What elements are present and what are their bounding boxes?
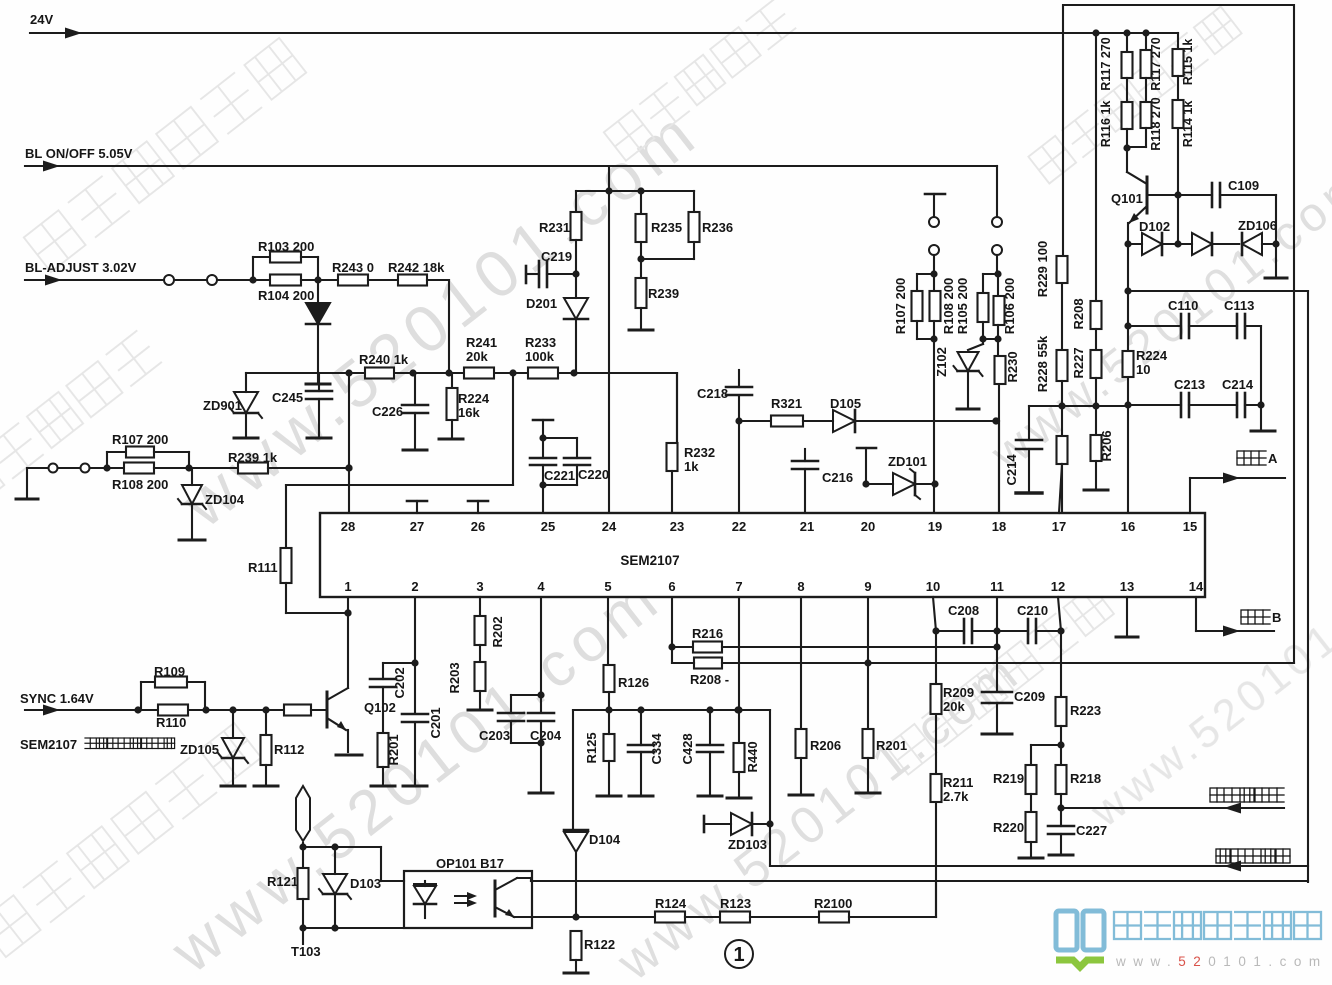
wire pin5col to D104 branch [572, 710, 574, 830]
wire contact to parallel pair [933, 255, 935, 274]
svg-text:22: 22 [732, 519, 746, 534]
wire collector long y881 [517, 877, 531, 879]
wire y710 row [573, 709, 770, 711]
svg-text:20k: 20k [943, 699, 965, 714]
svg-text:26: 26 [471, 519, 485, 534]
svg-text:R126: R126 [618, 675, 649, 690]
wire to right edge y291 [1128, 290, 1308, 292]
svg-text:C203: C203 [479, 728, 510, 743]
svg-text:C219: C219 [541, 249, 572, 264]
wire down to ZD103 node [769, 710, 771, 866]
wire y866 long [770, 865, 1308, 867]
label drive A [1237, 451, 1278, 466]
svg-text:R108 200: R108 200 [112, 477, 168, 492]
svg-text:R208: R208 [1071, 298, 1086, 329]
connector pin T103 symbol [296, 786, 310, 841]
wire emitter to node [514, 916, 576, 918]
wire pin19 column [933, 339, 935, 513]
ground [336, 754, 362, 757]
svg-text:14: 14 [1189, 579, 1204, 594]
svg-text:C209: C209 [1014, 689, 1045, 704]
svg-text:D102: D102 [1139, 219, 1170, 234]
label from-backlight (lower) [1216, 849, 1290, 863]
svg-text:R218: R218 [1070, 771, 1101, 786]
svg-text:23: 23 [670, 519, 684, 534]
svg-text:R104 200: R104 200 [258, 288, 314, 303]
svg-text:2.7k: 2.7k [943, 789, 969, 804]
svg-text:28: 28 [341, 519, 355, 534]
svg-text:20: 20 [861, 519, 875, 534]
svg-text:C220: C220 [578, 467, 609, 482]
wire pin17 top column [1059, 464, 1062, 513]
wire y405 row [1029, 405, 1128, 407]
wire box outline top [1063, 5, 1294, 663]
ground [234, 437, 258, 440]
svg-text:R209: R209 [943, 685, 974, 700]
svg-text:T103: T103 [291, 944, 321, 959]
svg-text:ZD105: ZD105 [180, 742, 219, 757]
wire 24V bus [30, 32, 1178, 34]
svg-text:C214: C214 [1004, 454, 1019, 486]
svg-text:R228 55k: R228 55k [1035, 335, 1050, 392]
svg-text:16: 16 [1121, 519, 1135, 534]
wire pin16 top column [1127, 244, 1129, 513]
svg-text:D105: D105 [830, 396, 861, 411]
ground [629, 329, 653, 332]
ground [307, 437, 331, 440]
wire R116/R118 bracket [1127, 146, 1146, 148]
svg-text:1: 1 [344, 579, 351, 594]
svg-text:25: 25 [541, 519, 555, 534]
svg-text:1: 1 [733, 944, 744, 966]
svg-text:R105 200: R105 200 [955, 278, 970, 334]
svg-text:R231: R231 [539, 220, 570, 235]
svg-text:R236: R236 [702, 220, 733, 235]
svg-text:ZD101: ZD101 [888, 454, 927, 469]
svg-text:R243 0: R243 0 [332, 260, 374, 275]
resistor above pin17 [1061, 406, 1063, 436]
wire rail to pin23 corner [676, 373, 678, 443]
ground [1251, 430, 1275, 433]
diode below R104 junction [317, 280, 319, 303]
svg-text:R224: R224 [458, 391, 490, 406]
svg-text:C428: C428 [680, 733, 695, 764]
svg-text:C218: C218 [697, 386, 728, 401]
svg-text:R117 270: R117 270 [1099, 37, 1113, 91]
wire y647 to pin11 [722, 646, 997, 648]
svg-text:BL ON/OFF 5.05V: BL ON/OFF 5.05V [25, 146, 133, 161]
ground [564, 972, 588, 975]
wire T103 node [302, 843, 304, 868]
svg-text:Q101: Q101 [1111, 191, 1143, 206]
svg-text:R206: R206 [810, 738, 841, 753]
wire right edge down [1307, 291, 1309, 882]
svg-text:R108 200: R108 200 [941, 278, 956, 334]
resistor Q102 base [284, 705, 311, 716]
ground [529, 792, 553, 795]
stub above pin20 [857, 447, 876, 450]
svg-text:18: 18 [992, 519, 1006, 534]
wire pin28 column [348, 373, 350, 513]
svg-text:R107 200: R107 200 [112, 432, 168, 447]
svg-text:100k: 100k [525, 349, 555, 364]
LED inside OP101 [424, 881, 426, 886]
svg-text:11: 11 [990, 579, 1004, 594]
svg-text:24V: 24V [30, 12, 53, 27]
wire BL ON/OFF bus [25, 165, 997, 167]
svg-text:SYNC 1.64V: SYNC 1.64V [20, 691, 94, 706]
svg-text:C214: C214 [1222, 377, 1254, 392]
svg-text:7: 7 [735, 579, 742, 594]
wire pin7 column [738, 597, 740, 710]
ground [179, 539, 205, 542]
wire pin8 column [800, 597, 802, 729]
ground [306, 383, 330, 386]
label from-backlight (upper) [1210, 788, 1284, 802]
ground [468, 709, 492, 712]
ground [727, 797, 751, 800]
svg-text:C109: C109 [1228, 178, 1259, 193]
ground [957, 408, 979, 411]
wire BL-ADJUST to R104 [175, 279, 206, 281]
svg-text:10: 10 [1136, 362, 1150, 377]
svg-text:R107 200: R107 200 [893, 278, 908, 334]
svg-text:R229 100: R229 100 [1035, 241, 1050, 297]
svg-text:1k: 1k [684, 459, 699, 474]
wire pin4 column [540, 597, 542, 713]
label drive B [1241, 610, 1281, 625]
svg-text:15: 15 [1183, 519, 1197, 534]
svg-text:R122: R122 [584, 937, 615, 952]
svg-text:3: 3 [476, 579, 483, 594]
svg-text:R116 1k: R116 1k [1099, 101, 1113, 148]
svg-text:C216: C216 [822, 470, 853, 485]
svg-text:20k: 20k [466, 349, 488, 364]
svg-text:19: 19 [928, 519, 942, 534]
svg-text:R230: R230 [1005, 351, 1020, 382]
svg-text:C110: C110 [1168, 298, 1198, 313]
wire pin6 column [671, 597, 673, 663]
svg-text:R125: R125 [584, 732, 599, 763]
svg-text:C204: C204 [530, 728, 562, 743]
svg-text:R242 18k: R242 18k [388, 260, 445, 275]
op-amp U1 SEM2107 IC body [320, 513, 1205, 597]
ground [698, 795, 722, 798]
terminal circles input [49, 464, 58, 473]
ground [403, 785, 427, 788]
svg-text:C210: C210 [1017, 603, 1048, 618]
svg-text:SEM2107: SEM2107 [20, 737, 77, 752]
wire to pin25 [542, 485, 544, 513]
wire pin28 feed path [512, 373, 514, 485]
svg-text:R201: R201 [876, 738, 907, 753]
svg-text:SEM2107: SEM2107 [620, 553, 679, 568]
ground [1016, 491, 1042, 494]
circled number 1 [725, 940, 753, 968]
ground [439, 438, 463, 441]
svg-text:R321: R321 [771, 396, 802, 411]
ground [1265, 277, 1287, 280]
svg-text:C208: C208 [948, 603, 979, 618]
svg-text:C226: C226 [372, 404, 403, 419]
ground [597, 795, 621, 798]
svg-text:R240 1k: R240 1k [359, 352, 409, 367]
svg-text:R202: R202 [490, 616, 505, 647]
ground [221, 785, 245, 788]
wire pin13 ground stub [1126, 597, 1128, 635]
svg-text:C213: C213 [1174, 377, 1205, 392]
svg-text:C202: C202 [392, 667, 407, 698]
logo url [1115, 954, 1328, 969]
diode next to D102 [1192, 233, 1212, 255]
svg-text:R211: R211 [943, 775, 973, 790]
label SEM2107 pins note [20, 737, 175, 752]
wire from-backlight upper [1061, 807, 1284, 809]
svg-text:21: 21 [800, 519, 814, 534]
svg-text:ZD106: ZD106 [1238, 218, 1277, 233]
svg-text:ZD901: ZD901 [203, 398, 242, 413]
ground [1019, 857, 1043, 860]
svg-text:www.520101.com: www.520101.com [1115, 954, 1328, 969]
svg-text:OP101 B17: OP101 B17 [436, 856, 504, 871]
ground [982, 733, 1012, 736]
svg-text:16k: 16k [458, 405, 480, 420]
terminal circles pin19 branch [929, 217, 939, 227]
svg-text:B: B [1272, 610, 1281, 625]
svg-text:R241: R241 [466, 335, 497, 350]
svg-text:R203: R203 [447, 662, 462, 693]
wire pin15 drive A [1189, 478, 1191, 513]
svg-text:12: 12 [1051, 579, 1065, 594]
svg-text:D103: D103 [350, 876, 381, 891]
ground [371, 785, 395, 788]
ground [789, 794, 813, 797]
svg-text:C334: C334 [649, 733, 664, 765]
svg-text:R110: R110 [156, 715, 186, 730]
wire T103 stem [302, 928, 304, 944]
wire y663 long [672, 662, 694, 664]
wire pin1 column to Q102 [347, 597, 349, 688]
svg-text:Q102: Q102 [364, 700, 396, 715]
wire stub from BL bus to R231/R235 [608, 166, 610, 513]
svg-text:BL-ADJUST 3.02V: BL-ADJUST 3.02V [25, 260, 137, 275]
ground [1084, 489, 1108, 492]
svg-text:R121: R121 [267, 874, 298, 889]
svg-text:R235: R235 [651, 220, 682, 235]
ground terminal left [26, 468, 28, 497]
svg-text:R223: R223 [1070, 703, 1101, 718]
wire pin12 column [1058, 597, 1061, 631]
stub bar above pin27 [416, 501, 418, 513]
svg-text:24: 24 [602, 519, 617, 534]
stub bar above contact [925, 193, 945, 196]
wire R239 to pin28 column [268, 467, 349, 469]
phototransistor inside OP101 [494, 881, 497, 916]
svg-text:R123: R123 [720, 896, 751, 911]
svg-text:D201: D201 [526, 296, 557, 311]
svg-text:R232: R232 [684, 445, 715, 460]
svg-text:9: 9 [864, 579, 871, 594]
logo book icon [1056, 911, 1104, 967]
wire R242 to R241 node [427, 279, 449, 281]
ground [629, 795, 653, 798]
logo site name [1114, 912, 1321, 939]
svg-text:4: 4 [537, 579, 545, 594]
svg-text:R227: R227 [1071, 347, 1086, 378]
terminal circles pin18 branch [992, 217, 1002, 227]
svg-text:C227: C227 [1076, 823, 1107, 838]
svg-text:8: 8 [797, 579, 804, 594]
stub bar above pin26 [477, 501, 479, 513]
ground [1049, 854, 1073, 857]
wire rail y373 [246, 372, 677, 374]
svg-text:C113: C113 [1224, 298, 1254, 313]
ground [254, 785, 278, 788]
svg-text:5: 5 [604, 579, 611, 594]
svg-text:ZD103: ZD103 [728, 837, 767, 852]
svg-text:10: 10 [926, 579, 940, 594]
svg-text:R124: R124 [655, 896, 687, 911]
wire input [27, 467, 48, 469]
svg-text:R219: R219 [993, 771, 1024, 786]
svg-text:R224: R224 [1136, 348, 1168, 363]
svg-text:2: 2 [411, 579, 418, 594]
wire pin14 drive B [1195, 597, 1197, 631]
svg-text:R2100: R2100 [814, 896, 852, 911]
ground [403, 449, 427, 452]
svg-text:R111: R111 [248, 560, 278, 575]
svg-text:D104: D104 [589, 832, 621, 847]
wire bottom LED row [303, 927, 404, 929]
svg-text:R239: R239 [648, 286, 679, 301]
svg-text:R220: R220 [993, 820, 1024, 835]
svg-text:6: 6 [668, 579, 675, 594]
terminal circles BL-ADJUST [164, 275, 174, 285]
wire BL-ADJUST [25, 279, 164, 281]
svg-text:R216: R216 [692, 626, 723, 641]
svg-text:17: 17 [1052, 519, 1066, 534]
svg-text:A: A [1268, 451, 1278, 466]
wire pin2 column [414, 597, 416, 714]
svg-text:R233: R233 [525, 335, 556, 350]
wire BL bus corner to contacts [996, 166, 998, 217]
svg-text:C245: C245 [272, 390, 303, 405]
wire pin11 column [996, 597, 998, 692]
svg-text:C221: C221 [544, 468, 575, 483]
svg-text:13: 13 [1120, 579, 1134, 594]
svg-text:R208 -: R208 - [690, 672, 729, 687]
svg-text:ZD104: ZD104 [205, 492, 245, 507]
svg-text:Z102: Z102 [934, 347, 949, 377]
ground [856, 792, 880, 795]
wire R124 row [576, 916, 655, 918]
wire pin9 column [867, 597, 869, 729]
svg-text:R440: R440 [745, 741, 760, 772]
svg-text:C201: C201 [428, 707, 443, 738]
light arrows [455, 895, 472, 897]
svg-text:R112: R112 [274, 742, 304, 757]
stub bar above C221 [533, 419, 553, 422]
wire pin18 column [998, 421, 1000, 513]
wire pin10 column [933, 597, 936, 631]
svg-text:27: 27 [410, 519, 424, 534]
